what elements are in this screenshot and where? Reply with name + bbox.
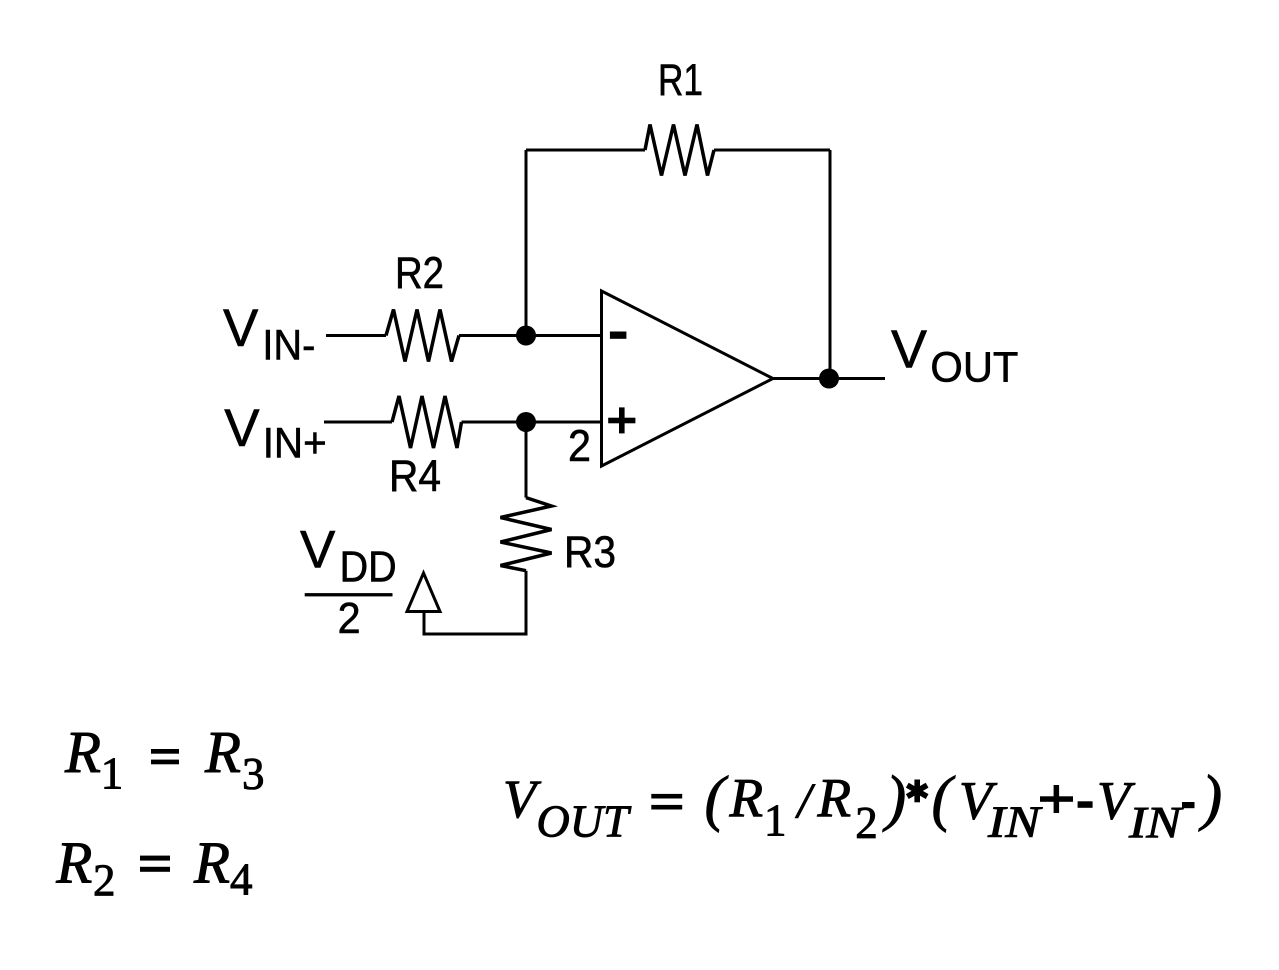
op-amp inverting input minus sign xyxy=(610,332,627,339)
svg-text:V: V xyxy=(223,299,259,358)
svg-text:IN: IN xyxy=(987,798,1043,847)
resistor R2 zigzag xyxy=(386,310,459,362)
equation R1 = R3 xyxy=(64,719,265,799)
svg-text:DD: DD xyxy=(340,543,397,592)
svg-text:IN: IN xyxy=(1128,798,1184,847)
svg-text:V: V xyxy=(300,521,336,580)
svg-text:OUT: OUT xyxy=(537,796,632,847)
resistor R3 zigzag xyxy=(501,498,552,571)
svg-text:2: 2 xyxy=(338,594,361,643)
label VDD xyxy=(300,521,397,592)
wire R4 to non-inverting input xyxy=(462,421,602,424)
svg-text:2: 2 xyxy=(855,798,878,848)
wire op-amp output xyxy=(773,377,885,380)
svg-text:): ) xyxy=(1199,764,1223,832)
svg-text:R: R xyxy=(64,719,101,785)
VDD/2 source arrow xyxy=(407,573,440,612)
label VOUT xyxy=(891,320,1018,392)
svg-text:R: R xyxy=(55,830,92,896)
wire VIN+ lead-in xyxy=(324,421,392,424)
resistor R1 zigzag xyxy=(645,125,714,176)
wire top left horizontal (inverting node to R1) xyxy=(526,149,645,152)
junction node at non-inverting input xyxy=(516,412,536,432)
svg-text:1: 1 xyxy=(764,795,787,845)
svg-text:(: ( xyxy=(705,765,729,833)
svg-text:R: R xyxy=(193,830,230,896)
wire VIN- lead-in xyxy=(326,334,386,337)
svg-text:2: 2 xyxy=(568,422,591,471)
junction node at output xyxy=(819,369,839,389)
resistor R4 zigzag xyxy=(392,396,462,448)
label VIN+ xyxy=(224,399,326,468)
equation R2 = R4 xyxy=(55,830,252,906)
svg-text:V: V xyxy=(891,320,927,380)
svg-text:R4: R4 xyxy=(389,452,441,501)
op-amp non-inverting input plus sign xyxy=(608,407,635,433)
wire top right horizontal (R1 to output branch) xyxy=(714,149,830,152)
svg-text:R1: R1 xyxy=(658,56,703,105)
svg-text:R: R xyxy=(729,768,764,829)
svg-text:IN+: IN+ xyxy=(263,420,327,468)
svg-text:R2: R2 xyxy=(395,249,444,298)
wire R2 to inverting input xyxy=(459,334,601,337)
wire left vertical (top wire down to inverting input node) xyxy=(525,150,528,336)
wire non-inverting node down to R3 xyxy=(525,422,528,498)
junction node at inverting input xyxy=(516,326,536,346)
wire R3 bottom to VDD/2 source xyxy=(424,571,526,634)
svg-text:3: 3 xyxy=(242,749,265,799)
svg-text:4: 4 xyxy=(230,855,253,905)
label VIN- xyxy=(223,299,315,370)
svg-text:V: V xyxy=(224,399,260,458)
wire right vertical (top wire down to output node) xyxy=(829,150,832,379)
svg-text:IN-: IN- xyxy=(262,322,315,370)
op-amp U1 triangle xyxy=(602,291,774,466)
svg-text:(: ( xyxy=(932,765,956,833)
fraction bar of VDD/2 xyxy=(305,593,393,596)
svg-text:R3: R3 xyxy=(564,528,616,577)
svg-text:/: / xyxy=(795,772,816,828)
equation VOUT = (R1 /R2)*(VIN+-VIN-) xyxy=(503,764,1222,848)
svg-text:2: 2 xyxy=(93,856,116,906)
svg-text:1: 1 xyxy=(101,748,124,798)
svg-text:): ) xyxy=(883,765,907,833)
svg-text:R: R xyxy=(817,768,852,829)
svg-text:R: R xyxy=(204,719,241,785)
svg-text:OUT: OUT xyxy=(930,344,1018,392)
